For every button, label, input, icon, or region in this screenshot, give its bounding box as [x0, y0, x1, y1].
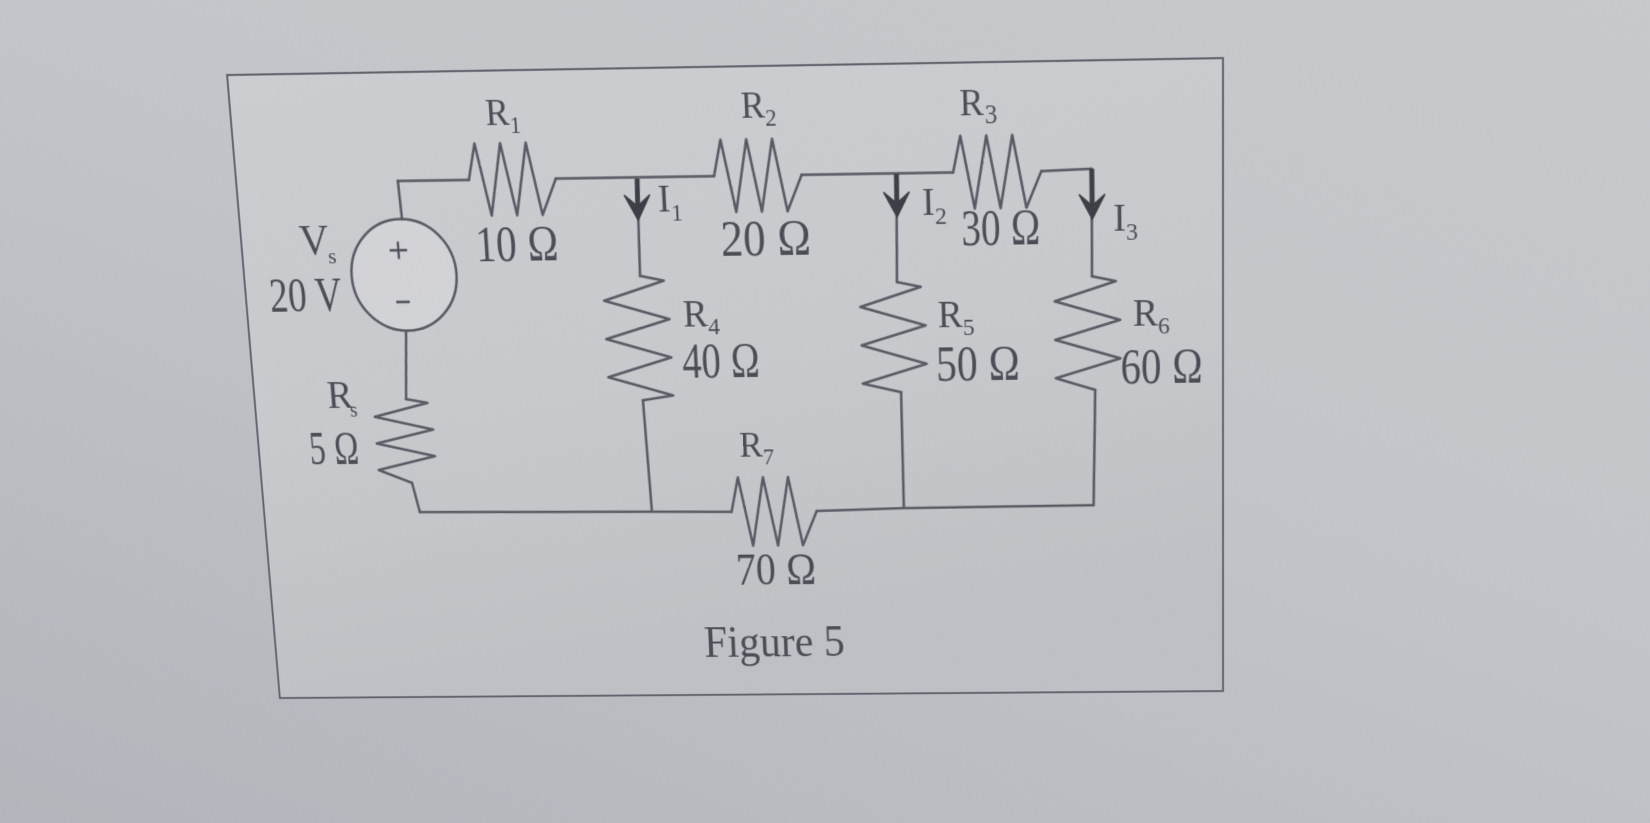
wire top segment R3 to right corner [1041, 169, 1091, 171]
resistor R8 zigzag (5 ohm) [373, 399, 436, 483]
resistor R1 zigzag (10 ohm) [467, 142, 558, 216]
resistor R6 zigzag (60 ohm) [1054, 276, 1120, 390]
current arrow I2 [883, 174, 910, 217]
svg-text:5 Ω: 5 Ω [307, 421, 361, 475]
voltage source V_s circle [347, 218, 460, 331]
svg-text:10 Ω: 10 Ω [474, 216, 560, 273]
svg-text:40 Ω: 40 Ω [681, 334, 761, 390]
svg-text:20 Ω: 20 Ω [720, 210, 813, 268]
svg-text:50 Ω: 50 Ω [935, 336, 1020, 392]
wire bottom left segment [420, 509, 732, 515]
resistor R4 zigzag (40 ohm) [603, 276, 674, 401]
wire branch 3 vertical [1091, 169, 1093, 277]
wire top segment between R1 and R2 [556, 176, 714, 178]
wire branch 2 vertical [894, 174, 900, 282]
wire source bottom to R8 [401, 331, 411, 399]
resistor R2 zigzag (20 ohm) [712, 138, 802, 212]
plus terminal mark [389, 241, 408, 259]
wire top segment between R2 and R3 [802, 172, 953, 174]
minus terminal mark [396, 301, 410, 304]
figure border frame [227, 58, 1223, 698]
svg-text:30 Ω: 30 Ω [961, 200, 1041, 258]
svg-text:20 V: 20 V [267, 267, 344, 322]
wire top segment left [398, 180, 469, 181]
resistor R3 zigzag (30 ohm) [952, 135, 1042, 209]
wire R6 bottom to bottom wire [1092, 390, 1096, 505]
svg-text:70 Ω: 70 Ω [735, 545, 817, 595]
wire R4 bottom to bottom wire [643, 400, 652, 511]
resistor R5 zigzag (50 ohm) [860, 282, 928, 393]
resistor R7 zigzag (70 ohm) [730, 477, 818, 546]
wire R5 bottom to bottom wire [901, 392, 905, 507]
wire top node stub to source [398, 181, 402, 220]
wire R8 bottom to bottom-left corner [412, 483, 420, 512]
current arrow I1 [623, 179, 651, 221]
wire bottom right segment [817, 505, 1094, 511]
wire branch 1 vertical [635, 178, 642, 276]
svg-text:Figure 5: Figure 5 [703, 616, 846, 667]
svg-text:60 Ω: 60 Ω [1120, 339, 1203, 395]
current arrow I3 [1079, 169, 1106, 220]
